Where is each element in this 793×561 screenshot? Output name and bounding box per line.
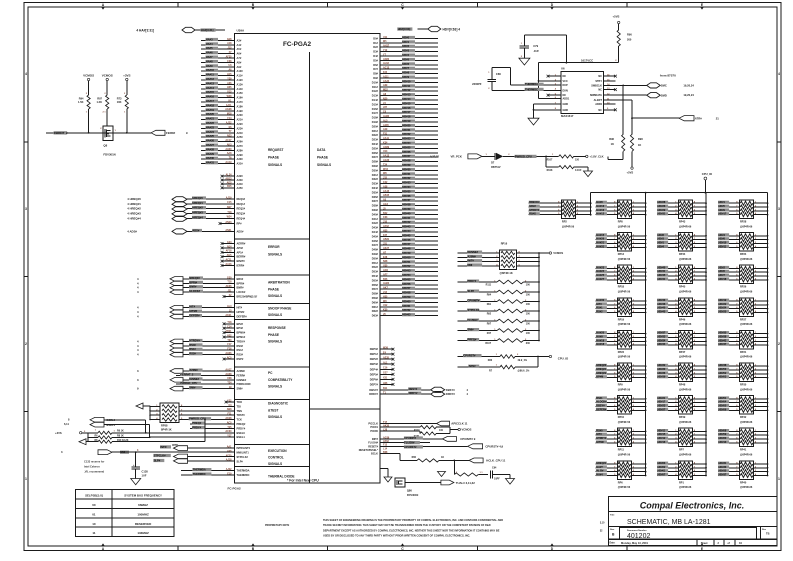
svg-text:NC: NC [598, 89, 602, 92]
svg-text:RESET#: RESET# [368, 445, 378, 448]
svg-text:ADS#: ADS# [192, 228, 199, 232]
svg-text:C22: C22 [383, 181, 388, 184]
svg-text:R96: R96 [609, 137, 614, 141]
diode D7 RB751V [491, 153, 514, 169]
svg-text:F17: F17 [227, 343, 232, 346]
svg-text:100: 100 [526, 322, 531, 325]
svg-text:AG20: AG20 [383, 159, 390, 162]
resistor R97 1.2K [97, 93, 109, 124]
svg-text:C80: C80 [496, 72, 501, 76]
svg-text:@8P4R-66: @8P4R-66 [740, 421, 753, 424]
svg-text:D42#: D42# [372, 221, 379, 225]
svg-text:D11#: D11# [372, 85, 379, 89]
svg-text:R94: R94 [487, 293, 492, 296]
svg-text:3: 3 [25, 207, 27, 211]
svg-text:@8P4R-66: @8P4R-66 [740, 323, 753, 326]
svg-text:of: of [728, 542, 731, 545]
svg-text:T18: T18 [227, 211, 232, 214]
svg-text:R92: R92 [487, 312, 492, 315]
resistor R107 150 to 1.8V_CLK [537, 154, 604, 162]
svg-text:HA#13: HA#13 [206, 81, 215, 85]
svg-text:C14: C14 [227, 326, 232, 329]
svg-text:100: 100 [439, 429, 444, 432]
svg-text:BR123#/BPM[2:0]*: BR123#/BPM[2:0]* [237, 296, 258, 299]
svg-text:RP47: RP47 [679, 351, 686, 354]
svg-text:VCMOS: VCMOS [462, 428, 472, 432]
svg-text:HD#56: HD#56 [402, 282, 411, 286]
svg-text:RP26: RP26 [740, 286, 747, 289]
svg-text:D21#: D21# [372, 129, 379, 133]
svg-text:RP43: RP43 [679, 221, 686, 224]
svg-text:AN31: AN31 [225, 229, 232, 232]
svg-text:HA#23: HA#23 [596, 266, 604, 269]
svg-text:HA#27: HA#27 [206, 143, 215, 147]
svg-text:THERMDC: THERMDC [237, 473, 250, 477]
resistor R94 1.5K [78, 93, 90, 133]
VCMOS rail and tap [539, 251, 563, 340]
svg-text:EXECUTION: EXECUTION [268, 449, 287, 453]
svg-text:01: 01 [92, 512, 96, 516]
resistor pack RP16 8P4R-1K [458, 242, 540, 275]
svg-text:H26: H26 [383, 382, 388, 385]
svg-text:D59#: D59# [372, 296, 379, 300]
svg-text:Q86: Q86 [407, 489, 412, 493]
svg-text:A8#: A8# [237, 60, 242, 64]
svg-text:MAX1617: MAX1617 [561, 114, 574, 118]
resistor pack RP28 [718, 200, 768, 228]
svg-text:@86.6_1%: @86.6_1% [518, 370, 531, 373]
svg-text:D20#: D20# [372, 124, 379, 128]
svg-text:D16#: D16# [372, 107, 379, 111]
svg-text:D34#: D34# [372, 186, 379, 190]
svg-text:1K: 1K [638, 143, 641, 147]
svg-text:HD#46: HD#46 [402, 238, 411, 242]
svg-text:A30#: A30# [237, 157, 244, 161]
CPU arbitration pins BR0# BPRI# BNR# LOCK# [137, 276, 257, 299]
svg-text:A19#: A19# [237, 109, 244, 113]
svg-text:AC17: AC17 [225, 139, 232, 142]
svg-text:IERR#: IERR# [237, 264, 245, 268]
svg-text:HD#54: HD#54 [719, 401, 727, 404]
svg-text:C15: C15 [227, 201, 232, 204]
svg-text:REQ2#: REQ2# [237, 207, 246, 211]
svg-text:AJ11: AJ11 [226, 104, 232, 107]
svg-text:THERMDA: THERMDA [237, 469, 250, 473]
svg-text:HA#21: HA#21 [596, 242, 604, 245]
svg-text:HIT#: HIT# [189, 305, 195, 309]
svg-text:K30: K30 [383, 309, 388, 312]
svg-text:4: 4 [25, 72, 27, 76]
svg-text:HA#18: HA#18 [206, 103, 215, 107]
svg-text:DEFER#: DEFER# [237, 315, 248, 319]
svg-text:1.5K: 1.5K [78, 100, 84, 104]
net CPU_IO tap at top of termination array [702, 172, 713, 193]
resistor R96 1K SMBCLK pullup [608, 85, 625, 160]
resistor pack RP21 [718, 330, 768, 358]
svg-text:HA#4: HA#4 [206, 42, 213, 46]
svg-text:HD#11: HD#11 [658, 429, 666, 432]
svg-text:HD#15: HD#15 [658, 433, 666, 436]
svg-text:HD#42: HD#42 [402, 220, 411, 224]
resistor pack RP43 [657, 200, 707, 228]
svg-text:ADS#: ADS# [469, 364, 476, 368]
note text C133 reserve for Intel Celeron [84, 460, 105, 474]
svg-text:DIAGNOSTIC: DIAGNOSTIC [268, 402, 289, 406]
resistor pack RP19 [596, 298, 647, 326]
svg-text:@8P4R-56: @8P4R-56 [618, 323, 631, 326]
svg-text:133MHZ: 133MHZ [137, 531, 149, 535]
svg-text:TRST#: TRST# [237, 413, 246, 417]
svg-text:A29#: A29# [237, 153, 244, 157]
svg-text:D23#: D23# [372, 138, 379, 142]
resistor R108 to ground [546, 156, 592, 176]
svg-text:HD#39: HD#39 [658, 376, 666, 379]
svg-text:HA#9: HA#9 [596, 335, 603, 338]
svg-text:@8P4R-56: @8P4R-56 [618, 356, 631, 359]
svg-text:@8P4R-66: @8P4R-66 [740, 258, 753, 261]
svg-text:D61#: D61# [372, 305, 379, 309]
svg-text:PROPRIETARY NOTE: PROPRIETARY NOTE [265, 524, 290, 527]
CPU section labels [268, 148, 331, 479]
svg-text:HD#13: HD#13 [402, 93, 411, 97]
svg-text:E28: E28 [383, 256, 388, 259]
svg-text:HD#37: HD#37 [719, 474, 727, 477]
svg-text:Intel Celeron: Intel Celeron [84, 465, 100, 469]
svg-text:A23#: A23# [237, 126, 244, 130]
svg-text:1K: 1K [441, 456, 444, 459]
svg-text:TUAL# 3,11,32: TUAL# 3,11,32 [456, 481, 475, 485]
svg-text:G30: G30 [227, 276, 232, 279]
svg-text:4 HA#[3:31]: 4 HA#[3:31] [136, 29, 154, 33]
svg-text:HA#14: HA#14 [206, 86, 215, 90]
svg-text:RP2: RP2 [562, 221, 567, 224]
svg-text:D40#: D40# [372, 212, 379, 216]
svg-text:RP9: RP9 [618, 384, 623, 387]
svg-text:2: 2 [778, 342, 780, 346]
svg-text:49.9_1%: 49.9_1% [518, 359, 528, 362]
svg-text:APICCLK 11: APICCLK 11 [451, 422, 468, 426]
svg-text:HD#35: HD#35 [402, 189, 411, 193]
svg-text:HD#40: HD#40 [402, 211, 411, 215]
svg-text:D31#: D31# [372, 173, 379, 177]
bus connector HA#[3:31] [136, 27, 225, 32]
svg-text:HD#30: HD#30 [658, 368, 666, 371]
+3VS node with resistors R6 R8 R10 [55, 419, 206, 445]
op-amp U6 MAX1617 temperature sensor [547, 67, 617, 118]
svg-text:D6#: D6# [373, 63, 378, 67]
svg-text:KENNE#: KENNE# [468, 250, 479, 254]
svg-text:BPRI#: BPRI# [189, 280, 197, 284]
resistor pack RP45 [657, 265, 707, 293]
svg-text:HTRDY#: HTRDY# [529, 209, 540, 212]
svg-text:RP48: RP48 [679, 384, 686, 387]
svg-text:A34#: A34# [237, 182, 244, 186]
svg-text:L14: L14 [383, 447, 388, 450]
svg-text:D44#: D44# [372, 230, 379, 234]
resistor R67 and capacitor C94 BCLK termination [454, 460, 514, 484]
svg-text:D9#: D9# [373, 76, 378, 80]
svg-text:Size: Size [610, 529, 615, 531]
svg-text:AK3: AK3 [227, 143, 232, 146]
svg-text:D19#: D19# [372, 120, 379, 124]
svg-text:N20: N20 [383, 97, 388, 100]
svg-text:+3VS: +3VS [55, 431, 62, 435]
svg-text:HA#12: HA#12 [206, 77, 215, 81]
svg-text:T24: T24 [383, 163, 388, 166]
svg-text:RP46: RP46 [679, 318, 686, 321]
svg-text:M32: M32 [383, 89, 388, 92]
svg-text:1UF: 1UF [142, 474, 147, 478]
svg-text:HD#48: HD#48 [402, 247, 411, 251]
svg-text:D32#: D32# [372, 177, 379, 181]
svg-text:DEFER#: DEFER# [189, 314, 200, 318]
svg-text:SMI#: SMI# [237, 387, 244, 391]
svg-text:AN4: AN4 [383, 269, 388, 272]
svg-text:D3#: D3# [373, 50, 378, 54]
svg-text:RP30: RP30 [740, 384, 747, 387]
svg-text:PWRGD_CPU: PWRGD_CPU [515, 154, 532, 158]
svg-text:D2#: D2# [373, 45, 378, 49]
CPU REQ0#-REQ4# pins with HREQ# hex flags [127, 196, 245, 226]
svg-text:R6 1K: R6 1K [117, 430, 124, 433]
svg-text:HD#61: HD#61 [658, 470, 666, 473]
svg-text:AB13: AB13 [225, 177, 232, 180]
svg-text:HA#23: HA#23 [206, 125, 215, 129]
svg-text:HD#50: HD#50 [719, 368, 727, 371]
svg-text:HA#15: HA#15 [206, 90, 215, 94]
svg-text:HA#8: HA#8 [596, 201, 603, 204]
svg-text:HD#16: HD#16 [658, 441, 666, 444]
svg-text:@8P4R-66: @8P4R-66 [740, 225, 753, 228]
svg-text:VCMOS: VCMOS [553, 251, 563, 255]
svg-text:HIT#: HIT# [596, 303, 602, 306]
svg-text:HREQ#2: HREQ#2 [192, 206, 203, 210]
svg-text:D37#: D37# [372, 199, 379, 203]
svg-text:H35: H35 [383, 229, 388, 232]
ground for C79 [519, 58, 530, 65]
svg-text:IGNNE#: IGNNE# [237, 378, 247, 382]
svg-text:HD#44: HD#44 [658, 343, 666, 346]
svg-text:HA#16: HA#16 [206, 95, 215, 99]
resistor R7 86.6_1% ADS# to CPU_IO [458, 357, 538, 373]
svg-text:DEP0#: DEP0# [370, 347, 379, 351]
svg-text:U38: U38 [227, 377, 232, 380]
svg-text:HD#35: HD#35 [719, 470, 727, 473]
svg-text:HD#20: HD#20 [402, 123, 411, 127]
svg-text:@8P4R-66: @8P4R-66 [679, 486, 692, 489]
svg-text:COMPATIBILITY: COMPATIBILITY [268, 378, 293, 382]
svg-text:D39#: D39# [372, 208, 379, 212]
svg-text:PREQ#: PREQ# [192, 421, 201, 425]
svg-text:D15#: D15# [372, 102, 379, 106]
svg-text:AG5: AG5 [227, 181, 233, 184]
svg-text:T24: T24 [227, 382, 232, 385]
svg-text:PHASE: PHASE [268, 333, 279, 337]
svg-text:Document Number: Document Number [627, 529, 647, 532]
svg-text:D57#: D57# [372, 287, 379, 291]
svg-text:RP21: RP21 [740, 351, 747, 354]
svg-text:GND: GND [563, 103, 569, 106]
svg-text:HD#57: HD#57 [402, 286, 411, 290]
svg-text:A33#: A33# [237, 178, 244, 182]
svg-text:HD#55: HD#55 [719, 405, 727, 408]
resistor pack RP46 [657, 298, 707, 326]
svg-text:HD#46: HD#46 [658, 303, 666, 306]
svg-text:A32#: A32# [237, 174, 244, 178]
svg-text:A17#: A17# [237, 100, 244, 104]
svg-text:@8P4R-56: @8P4R-56 [618, 454, 631, 457]
svg-text:HD#48: HD#48 [719, 364, 727, 367]
svg-text:@8P4R-56: @8P4R-56 [562, 225, 575, 228]
resistor pack RP7 [657, 428, 707, 456]
wire rail B [645, 193, 647, 476]
CPU data parity pins DEP0#-DEP7# no-connect [370, 347, 395, 387]
svg-text:SNOOP PHASE: SNOOP PHASE [268, 307, 291, 311]
svg-text:CONTROL: CONTROL [268, 455, 284, 459]
svg-text:THERMDC: THERMDC [193, 472, 206, 476]
CPU INIT# FLUSH# RESET# BVSEL BCLK pins [359, 436, 504, 456]
svg-text:HREQ#1: HREQ#1 [192, 201, 203, 205]
svg-text:@8P4R-66: @8P4R-66 [740, 388, 753, 391]
CPU data pins D0#-D63# with HD# net labels [372, 35, 438, 317]
svg-text:AA34: AA34 [383, 80, 390, 83]
wire rail C [705, 193, 707, 476]
svg-text:Title: Title [610, 514, 615, 517]
svg-text:RP28: RP28 [740, 221, 747, 224]
transistor Q8 FDV301N [100, 124, 116, 157]
svg-text:BP#M: BP#M [596, 376, 603, 379]
svg-text:HD#2: HD#2 [719, 266, 726, 269]
resistor pack RP41 [718, 428, 768, 456]
svg-text:R66: R66 [412, 456, 417, 459]
svg-text:HD#31: HD#31 [658, 213, 666, 216]
resistor pack RP42 [718, 396, 768, 424]
svg-text:H32: H32 [227, 334, 232, 337]
svg-text:SMBDATA: SMBDATA [590, 94, 602, 97]
svg-text:D26#: D26# [372, 151, 379, 155]
svg-text:D33#: D33# [372, 182, 379, 186]
svg-text:HA#3: HA#3 [206, 37, 213, 41]
svg-text:HA#21: HA#21 [206, 117, 215, 121]
svg-text:HD#24: HD#24 [402, 141, 411, 145]
output flag FERR# [151, 130, 188, 135]
svg-text:HD#28: HD#28 [658, 201, 666, 204]
svg-text:FLUSH#: FLUSH# [468, 318, 479, 322]
svg-text:HD#58: HD#58 [719, 429, 727, 432]
svg-text:RP6: RP6 [618, 481, 623, 484]
svg-text:DEP5#: DEP5# [370, 372, 379, 376]
svg-text:HD#36: HD#36 [402, 194, 411, 198]
svg-text:F14: F14 [227, 117, 232, 120]
svg-text:A26#: A26# [237, 140, 244, 144]
svg-text:RS2#: RS2# [189, 352, 196, 356]
svg-text:AF7: AF7 [383, 273, 388, 276]
svg-text:FERR#T_2: FERR#T_2 [180, 372, 194, 376]
svg-text:HA#13: HA#13 [596, 205, 604, 208]
svg-text:HD#1: HD#1 [402, 40, 409, 44]
svg-text:IN_R#: IN_R# [596, 470, 604, 473]
ALERT wire to ATR# flag [615, 100, 719, 134]
svg-text:SMD: SMD [661, 93, 667, 97]
svg-text:@8P4R-66: @8P4R-66 [679, 356, 692, 359]
svg-text:@8P4R-66: @8P4R-66 [740, 454, 753, 457]
svg-text:HA#25: HA#25 [596, 274, 604, 277]
svg-text:SLP#: SLP# [468, 289, 475, 293]
svg-text:HA#15: HA#15 [596, 234, 604, 237]
net labels THERMDA THERMDC [525, 83, 544, 86]
svg-text:D4#: D4# [373, 54, 378, 58]
svg-text:R108: R108 [547, 169, 553, 172]
svg-text:DBSY#: DBSY# [596, 405, 605, 408]
svg-text:HD#32: HD#32 [402, 176, 411, 180]
system bus frequency table [76, 490, 174, 537]
svg-text:HD#40: HD#40 [658, 266, 666, 269]
CPU APIC pins PICCLK PICD1 PICD0 [368, 421, 468, 433]
svg-text:INIT#: INIT# [372, 438, 379, 441]
svg-text:DEP7#: DEP7# [370, 382, 379, 386]
svg-text:FLUSH#: FLUSH# [404, 441, 415, 445]
svg-text:AH36: AH36 [225, 352, 232, 355]
resistor pack RP40 [718, 461, 768, 489]
svg-text:RP27: RP27 [740, 318, 747, 321]
svg-text:@8P4R-66: @8P4R-66 [740, 486, 753, 489]
svg-text:HD#22: HD#22 [719, 303, 727, 306]
svg-text:RP44: RP44 [679, 253, 686, 256]
svg-text:HD#2: HD#2 [402, 44, 409, 48]
svg-text:SCHEMATIC, MB LA-1281: SCHEMATIC, MB LA-1281 [627, 519, 711, 526]
svg-text:D29#: D29# [372, 164, 379, 168]
svg-text:T18: T18 [227, 321, 232, 324]
svg-text:4 HREQ#1: 4 HREQ#1 [127, 202, 141, 206]
svg-text:19,20,24: 19,20,24 [683, 93, 694, 97]
svg-text:AN20: AN20 [383, 58, 390, 61]
svg-text:AA8: AA8 [227, 152, 232, 155]
svg-text:HD#9: HD#9 [402, 75, 409, 79]
svg-text:TCK: TCK [237, 418, 242, 422]
svg-text:B22: B22 [383, 212, 388, 215]
svg-text:Y39: Y39 [227, 77, 232, 80]
svg-text:FDV301N: FDV301N [103, 153, 115, 157]
svg-text:HD#54: HD#54 [402, 273, 411, 277]
svg-text:AB15: AB15 [383, 194, 390, 197]
svg-text:@8P4R-66: @8P4R-66 [679, 454, 692, 457]
svg-text:HD#19: HD#19 [719, 299, 727, 302]
svg-text:CPURST#: CPURST# [463, 354, 476, 358]
svg-text:HA#4: HA#4 [596, 474, 603, 477]
svg-text:HD#33: HD#33 [719, 466, 727, 469]
resistor R73 10K [117, 93, 129, 133]
svg-text:3,10: 3,10 [600, 523, 605, 525]
svg-text:4: 4 [778, 72, 780, 76]
svg-text:RESPONSE: RESPONSE [268, 326, 286, 330]
svg-text:J15: J15 [383, 177, 388, 180]
svg-text:RB751V: RB751V [491, 166, 501, 169]
svg-text:FC-PGA2: FC-PGA2 [228, 487, 241, 491]
resistor pack RP27 [718, 298, 768, 326]
svg-text:C133 reserve for: C133 reserve for [84, 460, 104, 464]
svg-text:HD#38: HD#38 [402, 203, 411, 207]
svg-text:&TEST: &TEST [268, 408, 279, 412]
svg-text:HD#17: HD#17 [658, 401, 666, 404]
svg-text:A25#: A25# [237, 135, 244, 139]
svg-text:AJ9: AJ9 [383, 128, 388, 131]
wire rail D [767, 193, 769, 476]
svg-text:HD#47: HD#47 [402, 242, 411, 246]
svg-text:DEPARTMENT EXCEPT AS AUTHORIZE: DEPARTMENT EXCEPT AS AUTHORIZED BY COMPA… [323, 528, 500, 532]
svg-text:D38#: D38# [372, 204, 379, 208]
svg-text:HA#7: HA#7 [206, 55, 213, 59]
svg-text:T30: T30 [227, 339, 232, 342]
